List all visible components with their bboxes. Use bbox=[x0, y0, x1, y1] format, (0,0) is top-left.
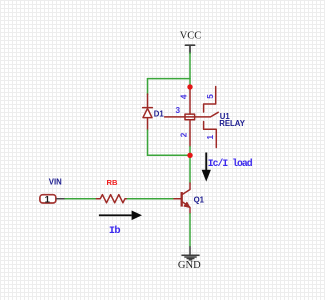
svg-text:3: 3 bbox=[176, 106, 181, 115]
relay U1 contact arm bbox=[195, 112, 218, 117]
svg-text:VCC: VCC bbox=[180, 31, 202, 42]
relay U1 coil box bbox=[185, 114, 195, 120]
svg-text:Ib: Ib bbox=[109, 225, 120, 237]
port VIN box bbox=[40, 195, 56, 203]
relay U1 coil pin 4 bbox=[189, 87, 191, 114]
current arrow Ib bbox=[99, 211, 142, 221]
svg-text:GND: GND bbox=[178, 260, 201, 271]
wire port to RB bbox=[65, 198, 96, 200]
svg-text:RB: RB bbox=[107, 178, 118, 187]
wire D1 bottom vertical bbox=[147, 130, 149, 155]
relay U1 contact pin 5 lead bbox=[204, 87, 216, 113]
relay U1 coil pin 2 bbox=[189, 120, 191, 147]
wire coil to junction bbox=[189, 147, 191, 155]
power symbol VCC bbox=[185, 45, 194, 53]
svg-text:Q1: Q1 bbox=[194, 195, 205, 204]
resistor RB bbox=[96, 195, 127, 203]
ground symbol bbox=[181, 246, 199, 259]
wire RB to base bbox=[127, 198, 172, 200]
wire collector vertical bbox=[189, 155, 191, 183]
svg-text:VIN: VIN bbox=[49, 178, 62, 187]
wire D1 top vertical bbox=[147, 79, 149, 95]
junction dot bottom bbox=[187, 153, 192, 158]
svg-text:RELAY: RELAY bbox=[219, 119, 246, 128]
relay U1 contact pin 1 lead bbox=[204, 122, 217, 148]
wire VCC vertical bbox=[189, 53, 191, 86]
current arrow Ic bbox=[202, 153, 211, 182]
svg-text:4: 4 bbox=[179, 94, 188, 99]
port VIN pin bbox=[57, 198, 65, 200]
svg-text:D1: D1 bbox=[154, 110, 165, 119]
diode D1 bbox=[143, 94, 153, 130]
transistor Q1 bbox=[173, 183, 190, 214]
wire branch to D1 horizontal bbox=[148, 78, 191, 80]
svg-text:1: 1 bbox=[206, 134, 215, 139]
relay U1 coil pin 3 bbox=[165, 116, 196, 118]
svg-text:2: 2 bbox=[179, 132, 188, 137]
svg-text:5: 5 bbox=[206, 94, 215, 99]
wire emitter vertical bbox=[189, 214, 191, 247]
junction dot top bbox=[187, 84, 192, 89]
svg-text:Ic/I load: Ic/I load bbox=[208, 158, 253, 169]
wire bottom branch horizontal bbox=[148, 154, 190, 156]
svg-text:1: 1 bbox=[45, 195, 51, 206]
